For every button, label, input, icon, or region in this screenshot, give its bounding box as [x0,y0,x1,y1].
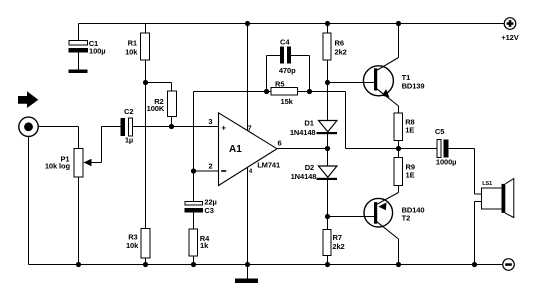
svg-text:A1: A1 [229,144,242,155]
svg-text:2: 2 [208,162,212,171]
svg-text:2k2: 2k2 [332,242,344,251]
svg-text:LS1: LS1 [482,181,492,187]
svg-text:BD139: BD139 [402,81,425,90]
svg-text:R5: R5 [275,80,284,89]
svg-text:+: + [221,123,226,132]
svg-text:C2: C2 [124,107,133,116]
svg-text:C4: C4 [280,38,290,47]
svg-text:7: 7 [247,124,251,133]
svg-text:1E: 1E [405,126,414,135]
svg-text:1000µ: 1000µ [436,158,457,167]
svg-text:1µ: 1µ [125,136,133,145]
svg-text:R1: R1 [128,39,137,48]
svg-text:6: 6 [278,138,282,147]
svg-text:1N4148: 1N4148 [291,172,317,181]
svg-text:10k: 10k [125,47,138,56]
svg-text:C5: C5 [435,127,444,136]
svg-text:2k2: 2k2 [335,47,347,56]
svg-text:R7: R7 [333,233,342,242]
svg-text:1k: 1k [200,241,209,250]
svg-text:LM741: LM741 [257,161,280,170]
svg-text:10k: 10k [126,241,139,250]
svg-text:470p: 470p [279,66,296,75]
svg-text:15k: 15k [281,97,294,106]
svg-text:C3: C3 [204,206,213,215]
svg-text:4: 4 [249,169,253,175]
svg-text:3: 3 [208,117,212,126]
svg-text:D2: D2 [305,163,314,172]
svg-text:100µ: 100µ [89,47,105,56]
svg-text:1N4148: 1N4148 [290,128,316,137]
svg-text:100K: 100K [147,104,165,113]
svg-text:10k log: 10k log [45,162,71,171]
svg-text:+12V: +12V [501,33,518,42]
svg-text:D1: D1 [304,119,313,128]
svg-text:1E: 1E [406,171,415,180]
svg-text:T2: T2 [402,214,411,223]
